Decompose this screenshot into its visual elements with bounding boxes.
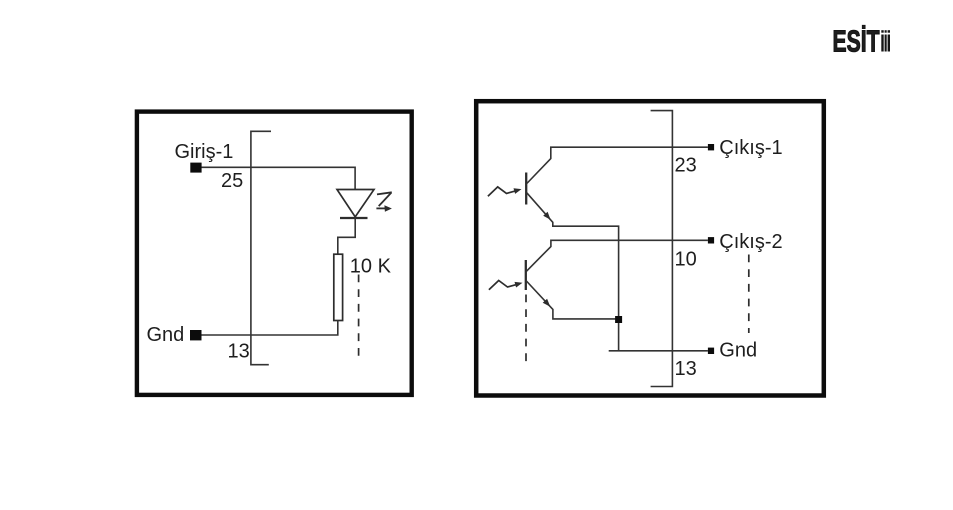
phototransistor Q1 emitter with arrow <box>527 193 619 351</box>
svg-text:13: 13 <box>675 358 697 380</box>
enclosure box: output circuit (right) <box>476 101 824 395</box>
svg-text:Çıkış-1: Çıkış-1 <box>719 137 782 159</box>
phototransistor Q2 collector and wire to Çıkış-2 pin <box>526 240 708 271</box>
phototransistor Q2 emitter with arrow <box>526 281 618 319</box>
svg-text:13: 13 <box>228 341 250 363</box>
svg-text:10 K: 10 K <box>350 256 392 278</box>
svg-text:ESİT: ESİT <box>833 24 880 59</box>
wire Giriş-1 pin to LED anode <box>202 167 356 189</box>
pin terminal square Gnd (left box) <box>190 330 202 340</box>
pin number 23 <box>675 155 697 177</box>
label Çıkış-1 <box>719 137 782 159</box>
pin number 13 (right box) <box>675 358 697 380</box>
svg-text:10: 10 <box>675 249 697 271</box>
LED D1 triangle <box>337 190 374 217</box>
light arrow into Q2 <box>489 281 523 290</box>
pin number 13 (left box) <box>228 341 250 363</box>
junction dot (emitters common node) <box>615 316 622 323</box>
LED D1 cathode bar <box>340 217 368 219</box>
dashed boundary line (right box, below Q2) <box>525 295 527 366</box>
pin number 25 <box>221 170 243 192</box>
svg-text:23: 23 <box>675 155 697 177</box>
pin terminal square Çıkış-2 <box>708 237 714 243</box>
light arrow into Q1 <box>488 187 522 196</box>
label Gnd (left box) <box>147 324 185 346</box>
svg-text:Çıkış-2: Çıkış-2 <box>719 231 782 253</box>
svg-text:Gnd: Gnd <box>719 340 757 362</box>
value label 10 K <box>350 256 392 278</box>
pin terminal square Gnd (right box) <box>708 348 714 354</box>
label Gnd (right box) <box>719 340 757 362</box>
pin number 10 <box>675 249 697 271</box>
dashed boundary line (right box, under Çıkış-2) <box>748 255 750 334</box>
wire LED cathode to resistor <box>338 218 355 254</box>
phototransistor Q1 base bar <box>525 173 527 205</box>
wire resistor to Gnd pin <box>202 321 338 336</box>
connector edge bracket (left box) <box>251 131 271 364</box>
label Çıkış-2 <box>719 231 782 253</box>
svg-text:Gnd: Gnd <box>147 324 185 346</box>
connector edge bracket (right box) <box>651 111 673 387</box>
svg-text:Giriş-1: Giriş-1 <box>175 141 234 163</box>
label Giriş-1 <box>175 141 234 163</box>
enclosure box: input circuit (left) <box>137 112 412 395</box>
resistor R1 (10 K) body <box>334 254 343 320</box>
dashed boundary line (left box) <box>358 275 360 358</box>
ESIT logo <box>833 24 891 59</box>
svg-text:25: 25 <box>221 170 243 192</box>
phototransistor Q2 base bar <box>525 260 527 290</box>
phototransistor Q1 collector and wire to Çıkış-1 pin <box>527 147 708 183</box>
LED D1 light emission arrow <box>376 192 392 211</box>
wire Gnd (right box) <box>609 350 708 352</box>
pin terminal square Giriş-1 <box>190 163 201 173</box>
pin terminal square Çıkış-1 <box>708 144 714 150</box>
